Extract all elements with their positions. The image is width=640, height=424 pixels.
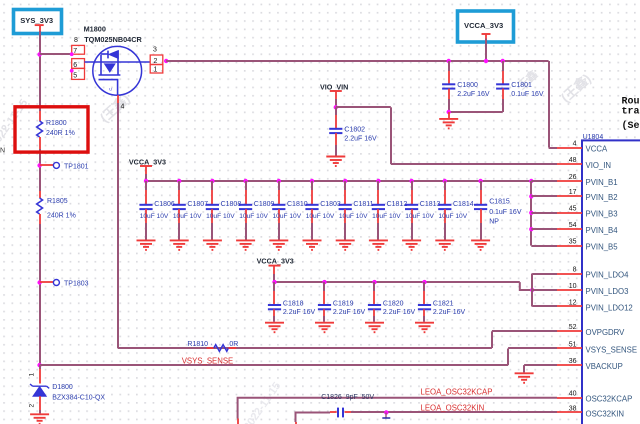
svg-text:10uF 10V: 10uF 10V bbox=[306, 213, 335, 220]
svg-text:C1813: C1813 bbox=[420, 201, 441, 208]
svg-text:4: 4 bbox=[573, 140, 577, 147]
svg-text:VIO_VIN: VIO_VIN bbox=[320, 82, 348, 91]
svg-text:tra: tra bbox=[622, 107, 640, 118]
svg-text:VCCA_3V3: VCCA_3V3 bbox=[129, 157, 166, 166]
svg-text:·: · bbox=[211, 341, 213, 348]
svg-text:2: 2 bbox=[154, 58, 158, 65]
svg-text:OVPGDRV: OVPGDRV bbox=[586, 328, 626, 337]
svg-text:C1800: C1800 bbox=[457, 82, 478, 89]
svg-text:10: 10 bbox=[569, 283, 577, 290]
svg-text:0.1uF 16V: 0.1uF 16V bbox=[511, 91, 544, 98]
svg-text:1: 1 bbox=[29, 373, 36, 377]
svg-text:10uF 10V: 10uF 10V bbox=[206, 213, 235, 220]
svg-text:C1802: C1802 bbox=[344, 127, 365, 134]
svg-text:VBACKUP: VBACKUP bbox=[586, 362, 623, 371]
svg-text:2.2uF 16V: 2.2uF 16V bbox=[283, 309, 316, 316]
svg-text:10uF 10V: 10uF 10V bbox=[173, 213, 202, 220]
svg-text:10uF 10V: 10uF 10V bbox=[439, 213, 468, 220]
svg-text:C1806: C1806 bbox=[154, 201, 175, 208]
svg-text:2.2uF 16V: 2.2uF 16V bbox=[457, 91, 490, 98]
svg-text:C1819: C1819 bbox=[333, 300, 354, 307]
svg-text:10uF 10V: 10uF 10V bbox=[405, 213, 434, 220]
svg-text:C1811: C1811 bbox=[353, 201, 373, 208]
svg-text:R1800: R1800 bbox=[46, 120, 67, 127]
svg-text:PVIN_B4: PVIN_B4 bbox=[586, 226, 619, 235]
svg-text:VCCA_3V3: VCCA_3V3 bbox=[257, 257, 294, 266]
svg-text:35: 35 bbox=[569, 238, 577, 245]
svg-text:40: 40 bbox=[569, 391, 577, 398]
svg-text:OSC32KCAP: OSC32KCAP bbox=[586, 395, 633, 404]
svg-text:C1809: C1809 bbox=[254, 201, 275, 208]
svg-text:51: 51 bbox=[569, 341, 577, 348]
svg-text:C1818: C1818 bbox=[283, 300, 304, 307]
svg-text:C1820: C1820 bbox=[383, 300, 404, 307]
svg-text:OSC32KIN: OSC32KIN bbox=[586, 409, 625, 418]
svg-text:7: 7 bbox=[73, 48, 77, 55]
svg-text:10uF 10V: 10uF 10V bbox=[339, 213, 368, 220]
svg-text:LEOA_OSC32KIN: LEOA_OSC32KIN bbox=[421, 403, 485, 412]
svg-text:U1804: U1804 bbox=[583, 134, 604, 141]
svg-text:6: 6 bbox=[73, 62, 77, 69]
svg-text:TP1803: TP1803 bbox=[64, 280, 89, 287]
svg-text:PVIN_B1: PVIN_B1 bbox=[586, 178, 618, 187]
svg-text:C1807: C1807 bbox=[187, 201, 208, 208]
svg-text:PVIN_LDO4: PVIN_LDO4 bbox=[586, 270, 630, 279]
svg-text:48: 48 bbox=[569, 157, 577, 164]
svg-text:R1810: R1810 bbox=[187, 341, 208, 348]
svg-text:PVIN_LDO12: PVIN_LDO12 bbox=[586, 303, 633, 312]
svg-text:0R: 0R bbox=[229, 341, 238, 348]
svg-text:12: 12 bbox=[569, 299, 577, 306]
svg-text:3: 3 bbox=[153, 47, 157, 54]
svg-text:1: 1 bbox=[154, 66, 158, 73]
svg-text:4: 4 bbox=[121, 104, 125, 111]
svg-text:10uF 10V: 10uF 10V bbox=[140, 213, 169, 220]
svg-text:5: 5 bbox=[73, 73, 77, 80]
svg-text:2.2uF 16V: 2.2uF 16V bbox=[333, 309, 366, 316]
svg-text:N: N bbox=[0, 147, 5, 154]
svg-text:10uF 10V: 10uF 10V bbox=[372, 213, 401, 220]
svg-text:R1805: R1805 bbox=[47, 198, 68, 205]
svg-text:LEOA_OSC32KCAP: LEOA_OSC32KCAP bbox=[421, 388, 493, 397]
svg-text:C1808: C1808 bbox=[221, 201, 242, 208]
svg-text:8: 8 bbox=[74, 37, 78, 44]
svg-text:0.1uF 16V: 0.1uF 16V bbox=[489, 209, 522, 216]
svg-text:C1821: C1821 bbox=[433, 300, 454, 307]
svg-text:(Se: (Se bbox=[622, 120, 640, 132]
svg-text:PVIN_B2: PVIN_B2 bbox=[586, 193, 618, 202]
svg-text:NP: NP bbox=[489, 219, 499, 226]
svg-text:VCCA_3V3: VCCA_3V3 bbox=[464, 21, 503, 30]
svg-text:C1826 9pF 50V: C1826 9pF 50V bbox=[321, 394, 374, 401]
svg-text:VSYS_SENSE: VSYS_SENSE bbox=[586, 345, 638, 354]
svg-text:36: 36 bbox=[569, 358, 577, 365]
svg-text:C1812: C1812 bbox=[387, 201, 408, 208]
svg-text:2: 2 bbox=[29, 404, 36, 408]
svg-text:C1803: C1803 bbox=[320, 201, 341, 208]
svg-text:52: 52 bbox=[569, 324, 577, 331]
svg-text:VIO_IN: VIO_IN bbox=[586, 161, 612, 170]
svg-text:10uF 10V: 10uF 10V bbox=[239, 213, 268, 220]
svg-text:PVIN_LDO3: PVIN_LDO3 bbox=[586, 287, 629, 296]
svg-text:26: 26 bbox=[569, 174, 577, 181]
svg-text:VCCA: VCCA bbox=[586, 144, 608, 153]
svg-text:TQM025NB04CR: TQM025NB04CR bbox=[84, 35, 142, 44]
svg-text:SYS_3V3: SYS_3V3 bbox=[20, 16, 53, 25]
svg-text:M1800: M1800 bbox=[84, 25, 106, 34]
svg-text:C1810: C1810 bbox=[287, 201, 308, 208]
svg-text:D1800: D1800 bbox=[52, 384, 73, 391]
svg-text:240R 1%: 240R 1% bbox=[46, 130, 75, 137]
svg-text:PVIN_B5: PVIN_B5 bbox=[586, 242, 619, 251]
svg-text:C1801: C1801 bbox=[511, 82, 532, 89]
svg-text:TP1801: TP1801 bbox=[64, 163, 89, 170]
svg-text:BZX384-C10-QX: BZX384-C10-QX bbox=[52, 395, 105, 402]
svg-text:10uF 10V: 10uF 10V bbox=[273, 213, 302, 220]
svg-text:C1815: C1815 bbox=[489, 199, 510, 206]
svg-text:54: 54 bbox=[569, 222, 577, 229]
svg-text:C1814: C1814 bbox=[453, 201, 474, 208]
svg-text:38: 38 bbox=[569, 405, 577, 412]
svg-text:2.2uF 16V: 2.2uF 16V bbox=[433, 309, 466, 316]
svg-text:17: 17 bbox=[569, 189, 577, 196]
svg-text:8: 8 bbox=[573, 266, 577, 273]
svg-text:PVIN_B3: PVIN_B3 bbox=[586, 210, 618, 219]
svg-text:45: 45 bbox=[569, 206, 577, 213]
svg-text:2.2uF 16V: 2.2uF 16V bbox=[383, 309, 416, 316]
svg-text:VSYS_SENSE: VSYS_SENSE bbox=[182, 357, 234, 366]
svg-text:2.2uF 16V: 2.2uF 16V bbox=[344, 135, 377, 142]
svg-text:240R 1%: 240R 1% bbox=[47, 213, 76, 220]
